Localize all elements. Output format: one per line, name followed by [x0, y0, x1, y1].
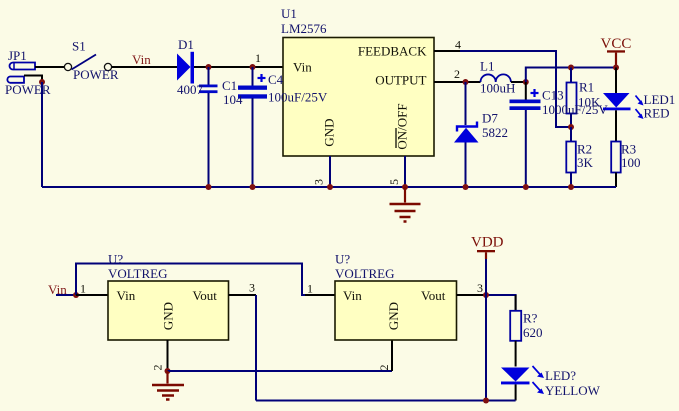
U1 pin3 GND wire [329, 156, 331, 187]
junction C1 top [206, 64, 212, 70]
svg-text:100uF/25V: 100uF/25V [268, 90, 328, 105]
svg-text:U1: U1 [281, 6, 297, 21]
svg-text:3: 3 [249, 281, 255, 295]
wire FEEDBACK pin4 [434, 50, 460, 52]
svg-text:1: 1 [255, 51, 261, 65]
diode D7 [454, 82, 508, 187]
svg-text:3K: 3K [577, 155, 594, 170]
svg-text:U?: U? [108, 252, 123, 267]
junction R1/R2/feedback [568, 124, 574, 130]
junction bottom rail VDD [483, 398, 489, 404]
svg-text:ON/OFF: ON/OFF [395, 103, 410, 149]
svg-text:FEEDBACK: FEEDBACK [358, 44, 427, 59]
resistor R1 [567, 68, 602, 128]
svg-text:620: 620 [523, 325, 543, 340]
wire pin1 U?1 [76, 294, 108, 296]
svg-text:100uH: 100uH [480, 81, 515, 96]
wire bottom rail top circuit [42, 186, 616, 188]
voltage regulator U?2 VOLTREG [335, 252, 457, 341]
svg-text:VOLTREG: VOLTREG [108, 266, 167, 281]
capacitor C4 [238, 67, 267, 187]
resistor R2 [566, 127, 593, 187]
svg-text:4007: 4007 [177, 82, 204, 97]
svg-text:Vout: Vout [193, 288, 218, 303]
svg-text:GND: GND [386, 302, 401, 330]
junction R2 bottom [568, 184, 574, 190]
junction D7 bottom [463, 184, 469, 190]
LED LED1 [603, 68, 675, 142]
svg-text:2: 2 [151, 365, 165, 371]
svg-text:R?: R? [523, 311, 538, 326]
svg-text:1: 1 [307, 282, 313, 296]
junction C13 top [523, 79, 529, 85]
junction Vin [73, 292, 79, 298]
junction C4 bottom [250, 184, 256, 190]
svg-text:C4: C4 [268, 72, 284, 87]
capacitor C1 [199, 67, 218, 187]
wire S1 to D1 [112, 66, 177, 68]
junction C13 bottom [523, 184, 529, 190]
svg-text:2: 2 [377, 365, 391, 371]
svg-text:104: 104 [223, 92, 243, 107]
svg-text:YELLOW: YELLOW [545, 383, 601, 398]
svg-text:4: 4 [455, 38, 461, 52]
wire JP1 pin1 to S1 [35, 66, 64, 68]
junction C1 bottom [206, 184, 212, 190]
svg-text:JP1: JP1 [8, 48, 27, 63]
svg-text:1: 1 [80, 282, 86, 296]
svg-text:VDD: VDD [471, 235, 504, 251]
junction D7 top [463, 79, 469, 85]
svg-text:5822: 5822 [482, 125, 508, 140]
voltage regulator U?1 VOLTREG [108, 252, 229, 341]
wire U?2 pin3 [457, 294, 484, 296]
op-amp U1 LM2576 [281, 6, 434, 156]
wire VDD column down to rail [485, 295, 487, 401]
ground under U1 [390, 187, 421, 222]
svg-text:100: 100 [621, 155, 641, 170]
svg-text:R1: R1 [579, 80, 594, 95]
switch S1 [64, 39, 118, 83]
wire JP1 pin2 [24, 76, 42, 83]
junction VDD [483, 292, 489, 298]
capacitor C13 [510, 82, 541, 187]
junction JP1-pin2 [39, 79, 45, 85]
wire bottom rail bottom circuit [256, 400, 516, 402]
power VDD [471, 235, 504, 296]
wire OUTPUT pin2 [434, 81, 481, 83]
wire C13 column up and across to VCC [526, 68, 616, 83]
inductor L1 [480, 59, 515, 96]
svg-text:Vin: Vin [343, 288, 362, 303]
connector JP1 [5, 48, 51, 97]
svg-text:Vin: Vin [293, 60, 312, 75]
wire D1 to U1 pin1 [194, 66, 283, 68]
diode D1 [177, 37, 194, 84]
wire GND link [168, 370, 393, 372]
svg-text:5: 5 [387, 179, 401, 185]
svg-text:VCC: VCC [601, 36, 632, 52]
svg-text:D1: D1 [178, 37, 194, 52]
ground under U?1 [152, 371, 184, 400]
LED LED? [501, 366, 601, 401]
junction GND U?1 [165, 368, 171, 374]
wire L1 to C13 junction [511, 81, 527, 83]
wire U?1 pin3 [229, 294, 257, 296]
junction R1 top [568, 65, 574, 71]
wire pin1 U?2 [305, 294, 335, 296]
svg-text:Vin: Vin [132, 52, 151, 67]
wire Vin stub [56, 294, 76, 296]
power VCC [601, 36, 632, 66]
svg-text:D7: D7 [482, 111, 498, 126]
svg-text:3: 3 [477, 281, 483, 295]
svg-text:VOLTREG: VOLTREG [335, 266, 394, 281]
U1 pin5 ON/OFF wire [404, 156, 406, 187]
svg-text:S1: S1 [72, 39, 86, 54]
resistor R? [510, 311, 542, 367]
svg-text:OUTPUT: OUTPUT [375, 73, 426, 88]
svg-text:L1: L1 [480, 59, 494, 74]
svg-text:U?: U? [335, 252, 350, 267]
svg-text:C13: C13 [542, 88, 564, 103]
junction VCC/LED1 [613, 65, 619, 71]
wire left drop from JP1 [41, 82, 43, 187]
svg-text:C1: C1 [222, 78, 237, 93]
wire U?1 GND pin2 [167, 340, 169, 371]
svg-text:2: 2 [454, 67, 460, 81]
svg-text:LED?: LED? [545, 368, 576, 383]
svg-text:3: 3 [312, 179, 326, 185]
svg-text:GND: GND [161, 302, 176, 330]
junction C4 top [250, 64, 256, 70]
svg-text:Vin: Vin [117, 288, 136, 303]
svg-text:LM2576: LM2576 [281, 21, 327, 36]
svg-text:POWER: POWER [73, 67, 119, 82]
svg-text:RED: RED [644, 106, 670, 121]
svg-text:GND: GND [322, 118, 337, 146]
svg-text:1000uF/25V: 1000uF/25V [542, 102, 608, 117]
wire U?2 GND pin2 [391, 340, 393, 371]
resistor R3 [611, 142, 640, 188]
svg-text:Vout: Vout [421, 288, 446, 303]
wire Vin bus up and over to U?2 [76, 264, 305, 296]
